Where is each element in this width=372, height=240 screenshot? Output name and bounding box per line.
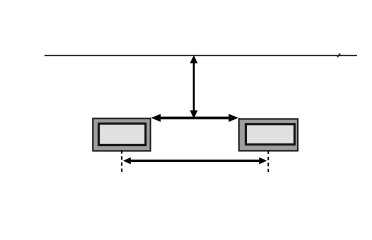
conductor 2 (right trace) [239,119,298,151]
conductor 1 (left trace) [93,118,151,150]
tick mark on reference line [337,54,340,58]
arrow s: horizontal double-headed arrow between conductors [151,114,238,122]
arrow h: vertical double-headed arrow from line to spacing arrow [190,55,198,118]
centerline left (dashed) [121,150,123,172]
reference plane line [45,55,358,57]
arrow d: center-to-center distance arrow [123,157,267,164]
centerline right (dashed) [267,151,269,172]
